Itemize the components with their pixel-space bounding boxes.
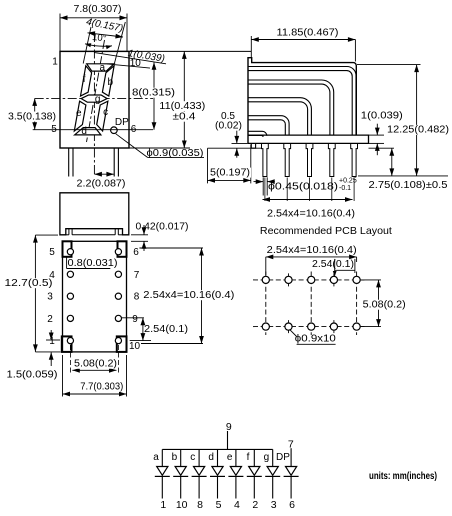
svg-text:10: 10 (129, 341, 141, 352)
svg-text:1.5(0.059): 1.5(0.059) (7, 370, 58, 381)
svg-text:3.5(0.138): 3.5(0.138) (8, 111, 56, 122)
wire segment b branch (180, 449, 182, 466)
svg-text:2.54x4=10.16(0.4): 2.54x4=10.16(0.4) (143, 290, 234, 301)
wire cathode segment d to pin 5 (217, 476, 219, 498)
side view bent leads nested (248, 67, 356, 137)
pcb hole size label dia 0.9x10 (290, 329, 337, 344)
svg-text:ϕ0.9x10: ϕ0.9x10 (295, 334, 337, 345)
svg-text:g: g (95, 94, 101, 105)
svg-text:±0.4: ±0.4 (173, 112, 197, 123)
LED a (155, 467, 170, 477)
tilted 10deg centerline (87, 40, 105, 142)
svg-text:e: e (227, 452, 233, 463)
leader lines for segment width 1(0.039) (95, 48, 167, 68)
svg-text:9: 9 (132, 314, 138, 325)
svg-text:a: a (100, 63, 106, 74)
svg-text:b: b (172, 452, 178, 463)
wire cathode segment a to pin 1 (161, 476, 163, 498)
svg-text:1: 1 (49, 336, 55, 347)
svg-text:2.2(0.087): 2.2(0.087) (77, 179, 126, 190)
LED DP (284, 467, 299, 477)
LED e (228, 467, 243, 477)
horizontal centerline (35, 97, 153, 99)
wire cathode segment b to pin 10 (180, 476, 182, 498)
svg-text:ϕ0.9(0.035): ϕ0.9(0.035) (147, 148, 204, 159)
wire segment g branch (272, 449, 274, 466)
corner pads (62, 241, 127, 352)
pcb dimension 2.54x4=10.16(0.4) (266, 245, 357, 275)
10 degree angle arc and label (85, 32, 113, 49)
leader and label dia 0.9(0.035) for DP (116, 134, 204, 159)
dimension 1.5(0.059) (7, 330, 61, 381)
dimension 5.08(0.2) back view (70, 345, 118, 373)
front view pin stub right (114, 148, 118, 177)
svg-text:e: e (76, 108, 82, 119)
svg-text:1: 1 (52, 57, 58, 68)
vertical centerline (93, 33, 95, 177)
svg-text:2.54(0.1): 2.54(0.1) (144, 324, 188, 335)
dimension 2.75(0.108)+-0.5 pin length (369, 148, 448, 191)
LED g (265, 467, 280, 477)
back view pin holes (67, 249, 121, 344)
dimension 12.25(0.482) total height (357, 65, 450, 176)
svg-text:units: mm(inches): units: mm(inches) (369, 471, 437, 482)
wire cathode segment f to pin 2 (253, 476, 255, 498)
svg-text:DP: DP (276, 452, 290, 463)
dimension 7.7(0.303) (63, 355, 127, 397)
wire cathode segment e to pin 4 (235, 476, 237, 498)
pcb holes (262, 276, 360, 330)
front view pin stub left (69, 148, 73, 177)
svg-text:1: 1 (160, 499, 166, 511)
dimension dia 0.45(0.018) pin width (254, 177, 357, 195)
svg-text:10°: 10° (92, 32, 108, 44)
svg-text:2.54(0.1): 2.54(0.1) (312, 259, 354, 270)
dimension 0.8(0.031) pad width leader (67, 257, 118, 269)
back view left pin labels 5 4 3 2 1 (47, 247, 55, 347)
wire segment f branch (253, 449, 255, 466)
svg-text:b: b (108, 77, 114, 88)
flange bottom extension line left (232, 142, 249, 144)
dimension 8(0.315) digit height (131, 62, 176, 129)
wire segment c branch (198, 449, 200, 466)
svg-text:3: 3 (47, 292, 53, 303)
LED c (192, 467, 207, 477)
dimension 2.54x4=10.16(0.4) back view (139, 248, 235, 344)
dimension 12.7(0.5) body height (4, 235, 61, 352)
svg-text:a: a (153, 452, 159, 463)
svg-text:5.08(0.2): 5.08(0.2) (74, 359, 117, 370)
wire cathode segment g to pin 3 (272, 476, 274, 498)
svg-text:8(0.315): 8(0.315) (132, 88, 175, 99)
pcb hole row centerlines (253, 272, 366, 336)
front view body outline (60, 51, 129, 148)
segment c (97, 101, 108, 131)
svg-text:9: 9 (226, 421, 232, 433)
svg-text:3: 3 (271, 499, 277, 511)
svg-text:ϕ0.45(0.018): ϕ0.45(0.018) (268, 181, 338, 192)
pcb dimension 5.08(0.2) (361, 280, 407, 327)
wire DP anode from pin 7 (290, 448, 292, 466)
side view pins below flange (262, 143, 358, 176)
dimension 0.42(0.017) (131, 222, 189, 252)
svg-text:6: 6 (289, 499, 295, 511)
segment b (102, 66, 114, 96)
svg-text:12.25(0.482): 12.25(0.482) (387, 125, 449, 136)
svg-text:2: 2 (47, 314, 53, 325)
svg-text:g: g (264, 452, 270, 463)
svg-text:4: 4 (234, 499, 240, 511)
segment g (81, 95, 107, 102)
segment d (75, 128, 101, 135)
side view front foot (251, 143, 255, 148)
segment letter labels (76, 63, 114, 137)
wire anode bus (162, 448, 272, 450)
svg-text:-0.1: -0.1 (339, 185, 351, 192)
wire segment d branch (217, 449, 219, 466)
back view upper body (60, 193, 129, 235)
back view lower body with pads (63, 241, 127, 352)
dimension 2.54(0.1) back view (122, 318, 188, 341)
svg-text:2: 2 (252, 499, 258, 511)
dimension 11(0.433) +-0.4 body height (129, 51, 206, 148)
dimension 2.2(0.087) pin offset (77, 172, 126, 190)
svg-text:7.8(0.307): 7.8(0.307) (74, 4, 122, 15)
dimension 0.5(0.02) standoff (215, 111, 242, 158)
svg-text:2.54x4=10.16(0.4): 2.54x4=10.16(0.4) (267, 209, 355, 220)
svg-text:5: 5 (49, 247, 55, 258)
svg-text:8: 8 (197, 499, 203, 511)
svg-text:c: c (103, 107, 108, 118)
projection line from front body top to side view (60, 50, 251, 52)
svg-text:1(0.039): 1(0.039) (361, 111, 403, 122)
dimension 2.54x4=10.16(0.4) side view pins (263, 178, 356, 220)
svg-text:7.7(0.303): 7.7(0.303) (80, 382, 123, 393)
svg-text:DP: DP (115, 117, 129, 128)
seating plane line and 5(0.197) dimension (208, 145, 262, 184)
segment a (87, 64, 114, 71)
svg-text:7: 7 (134, 270, 140, 281)
segment f (81, 66, 92, 96)
dimension 1(0.039) flange thickness (361, 111, 403, 156)
svg-text:6: 6 (133, 247, 139, 258)
svg-text:c: c (190, 452, 195, 463)
side view body outline (248, 58, 356, 144)
svg-text:2.54x4=10.16(0.4): 2.54x4=10.16(0.4) (267, 245, 357, 256)
svg-text:8: 8 (134, 292, 140, 303)
wire cathode DP to pin 6 (290, 476, 292, 498)
svg-text:(0.02): (0.02) (215, 120, 242, 131)
svg-text:d: d (81, 126, 87, 137)
dimension 11.85(0.467) (251, 28, 355, 62)
digit bottom reference line (33, 129, 153, 131)
svg-text:d: d (208, 452, 214, 463)
svg-text:5.08(0.2): 5.08(0.2) (363, 300, 406, 311)
LED f (247, 467, 262, 477)
dimension 4(0.157) tilted digit width (83, 17, 125, 64)
decimal point DP circle (111, 127, 118, 134)
segment e (74, 101, 86, 131)
svg-text:5: 5 (216, 499, 222, 511)
wire cathode segment c to pin 8 (198, 476, 200, 498)
wire segment a branch (161, 449, 163, 466)
LED d (210, 467, 225, 477)
svg-text:10: 10 (130, 58, 142, 69)
back view right pin labels 6 7 8 9 10 (129, 247, 141, 352)
dimension 3.5(0.138) (7, 98, 57, 129)
svg-text:0.8(0.031): 0.8(0.031) (68, 258, 118, 269)
svg-text:0.42(0.017): 0.42(0.017) (136, 222, 189, 233)
wire common anode pin 9 (227, 431, 229, 449)
svg-text:f: f (247, 452, 250, 463)
svg-text:12.7(0.5): 12.7(0.5) (5, 278, 53, 289)
svg-text:f: f (83, 74, 86, 85)
pcb dimension 2.54(0.1) (312, 259, 355, 277)
side view base flange bar (248, 135, 369, 143)
svg-text:11.85(0.467): 11.85(0.467) (277, 28, 339, 39)
svg-text:Recommended PCB Layout: Recommended PCB Layout (260, 225, 392, 237)
dimension 7.8(0.307) top width (60, 4, 127, 51)
svg-text:10: 10 (176, 499, 188, 511)
svg-text:2.75(0.108)±0.5: 2.75(0.108)±0.5 (369, 180, 448, 191)
svg-text:11(0.433): 11(0.433) (159, 101, 205, 112)
LED b (173, 467, 188, 477)
wire segment e branch (235, 449, 237, 466)
svg-text:5(0.197): 5(0.197) (210, 167, 250, 178)
